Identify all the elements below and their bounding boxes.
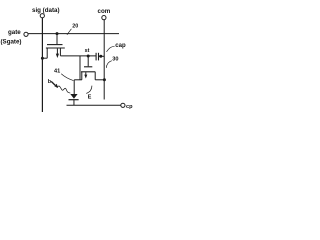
transistor TFT1 channel bar bbox=[46, 47, 65, 49]
svg-text:sig (data): sig (data) bbox=[32, 7, 60, 14]
node source junction dot bbox=[41, 57, 44, 60]
svg-text:st: st bbox=[85, 48, 90, 54]
node gate junction dot bbox=[56, 32, 59, 35]
wire bottom horizontal to cp bbox=[67, 104, 121, 106]
transistor TFT1 gate drop wire bbox=[56, 34, 58, 45]
diode D41 triangle bbox=[70, 94, 77, 99]
svg-text:cap: cap bbox=[115, 43, 126, 49]
transistor TFT1 left leg bbox=[46, 48, 48, 58]
capacitor left plate bbox=[95, 53, 97, 61]
node com junction dot bbox=[103, 78, 106, 81]
wire capacitor to com line bbox=[99, 55, 105, 57]
wire com line vertical bbox=[103, 20, 105, 100]
svg-text:gate: gate bbox=[8, 29, 21, 36]
leader line for 30 bbox=[106, 61, 111, 68]
wire TFT1 drain horizontal bbox=[60, 55, 96, 57]
transistor TFT1 gate bar bbox=[47, 44, 63, 46]
svg-text:E: E bbox=[88, 95, 92, 101]
arrow from b bbox=[51, 81, 55, 85]
transistor TFT2 middle arrow bbox=[85, 72, 87, 75]
wire drop to diode anode bbox=[73, 80, 75, 94]
svg-text:(Sgate): (Sgate) bbox=[1, 39, 22, 46]
transistor TFT2 right leg bbox=[94, 72, 96, 80]
transistor TFT1 right leg bbox=[59, 48, 61, 56]
wire gate line horizontal bbox=[28, 33, 119, 35]
transistor TFT1 middle arrow bbox=[56, 49, 58, 54]
wire TFT2 drain to com bbox=[95, 79, 104, 81]
svg-text:cp: cp bbox=[126, 104, 133, 110]
terminal gate bbox=[24, 32, 28, 36]
node TFT2 gate junction dot bbox=[87, 55, 90, 58]
node capacitor dot bbox=[99, 55, 102, 58]
diode D41 cathode bar bbox=[69, 99, 79, 101]
svg-text:20: 20 bbox=[72, 24, 78, 30]
svg-text:30: 30 bbox=[112, 57, 118, 63]
transistor TFT2 channel bar bbox=[81, 71, 95, 73]
transistor TFT2 gate drop wire bbox=[87, 56, 89, 66]
capacitor right plate bbox=[98, 53, 100, 61]
wire TFT1 source to sig line bbox=[42, 57, 47, 59]
leader line for E bbox=[86, 86, 92, 94]
transistor TFT2 left leg bbox=[81, 72, 83, 80]
wire sig data line vertical bbox=[41, 18, 43, 112]
transistor TFT2 gate bar bbox=[84, 66, 92, 68]
wire TFT2 source horizontal bbox=[74, 79, 82, 81]
leader line for cap bbox=[107, 46, 115, 52]
leader line for 41 bbox=[61, 74, 73, 81]
wire branch down to TFT2 source bbox=[79, 56, 81, 80]
terminal com bbox=[102, 16, 106, 20]
terminal cp bbox=[121, 103, 125, 107]
wire diode cathode down bbox=[73, 100, 75, 105]
terminal sig bbox=[40, 14, 44, 18]
leader line for 20 bbox=[67, 29, 72, 35]
svg-text:com: com bbox=[98, 8, 111, 15]
svg-text:41: 41 bbox=[54, 69, 60, 75]
wavy light squiggle bbox=[57, 86, 70, 93]
